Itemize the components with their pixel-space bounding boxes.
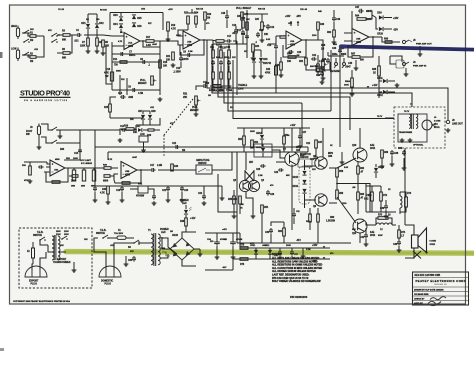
diode CR10 <box>379 27 383 31</box>
wire <box>380 186 382 192</box>
potentiometer R15 bright wiper <box>154 80 157 82</box>
monitor switch box <box>298 159 312 167</box>
wire <box>252 52 254 56</box>
jack J5 contact <box>409 40 412 42</box>
svg-text:MID: MID <box>219 90 223 92</box>
svg-text:68K: 68K <box>216 57 220 59</box>
svg-text:R36 1M: R36 1M <box>258 9 265 11</box>
capacitor C36 <box>278 250 282 256</box>
svg-text:68K: 68K <box>352 229 356 231</box>
zener diode <box>254 250 258 254</box>
wire U3A out <box>65 167 70 169</box>
ground <box>166 37 171 41</box>
supply -15V arrow <box>297 21 299 26</box>
svg-text:MPS: MPS <box>328 153 333 155</box>
diode CR2 <box>95 24 99 28</box>
winding T1 secondary <box>158 234 160 265</box>
wire <box>315 148 317 155</box>
wire -input <box>112 45 118 47</box>
resistor R25 <box>109 104 112 112</box>
title block row lines <box>413 278 469 301</box>
svg-text:47K: 47K <box>170 122 174 125</box>
export transformer core <box>54 235 56 260</box>
svg-text:C33: C33 <box>128 260 133 262</box>
svg-text:4.7K: 4.7K <box>171 28 176 31</box>
wire feedback row 2 <box>112 61 160 63</box>
ground <box>251 56 256 60</box>
wire <box>246 192 253 214</box>
resistor fuse export <box>32 248 35 258</box>
resistor R49 <box>317 22 320 30</box>
svg-text:R74: R74 <box>401 231 406 234</box>
wire <box>109 112 111 118</box>
resistor R16 <box>110 72 113 81</box>
svg-text:A06: A06 <box>296 149 301 152</box>
resistor R44 <box>288 56 296 59</box>
svg-text:5.6K: 5.6K <box>344 167 349 169</box>
resistor R62t <box>333 30 336 37</box>
svg-text:FOOT: FOOT <box>26 131 33 133</box>
ground <box>298 144 303 148</box>
jack 70V line out <box>446 120 449 123</box>
svg-text:4.7K: 4.7K <box>104 72 109 75</box>
wire <box>366 222 376 225</box>
capacitor <box>152 194 156 200</box>
svg-text:R76: R76 <box>240 264 245 266</box>
ground <box>395 83 400 87</box>
resistor R54 <box>261 205 264 213</box>
wire <box>87 29 89 38</box>
svg-text:SWITCH: SWITCH <box>96 233 105 235</box>
capacitor C49 <box>326 58 330 64</box>
wire <box>317 30 319 40</box>
title block appd signature <box>428 301 441 305</box>
switch S2b <box>51 142 53 144</box>
svg-text:470K: 470K <box>265 72 271 75</box>
svg-text:TRANSFORMER: TRANSFORMER <box>399 131 413 134</box>
resistor R8 <box>96 38 99 46</box>
svg-text:R31: R31 <box>183 94 188 96</box>
wire <box>341 152 343 160</box>
wire <box>188 12 196 14</box>
svg-text:T.E.B.: T.E.B. <box>37 232 44 234</box>
op-amp U3A <box>50 160 65 176</box>
wire <box>126 129 137 131</box>
svg-text:4558: 4558 <box>356 41 362 44</box>
wire <box>111 167 118 169</box>
wire <box>255 248 257 250</box>
wire <box>167 192 169 198</box>
ground <box>152 201 157 205</box>
capacitor C29 <box>278 168 284 172</box>
ground <box>171 63 176 67</box>
svg-text:PLUG: PLUG <box>105 283 112 285</box>
diode CR14 <box>261 148 265 152</box>
diode CR6 <box>132 23 136 27</box>
svg-text:CR14: CR14 <box>256 146 262 149</box>
svg-text:POWER: POWER <box>180 200 189 202</box>
capacitor C27 <box>298 134 302 140</box>
svg-text:-15V: -15V <box>393 30 398 32</box>
diode CR5 <box>132 15 136 19</box>
wire <box>218 174 237 212</box>
svg-text:ON/OFF: ON/OFF <box>300 157 309 159</box>
ground <box>58 134 63 138</box>
wire <box>351 70 353 78</box>
wire <box>305 199 317 201</box>
wire join <box>70 35 72 53</box>
svg-text:1M: 1M <box>170 231 173 233</box>
svg-text:PEAVEY ELECTRONICS CORP: PEAVEY ELECTRONICS CORP <box>416 279 466 283</box>
wire <box>172 169 196 171</box>
ground <box>390 162 395 166</box>
svg-text:1M: 1M <box>208 95 211 97</box>
photo bottom-left edge mark <box>0 348 4 351</box>
wire <box>291 256 293 259</box>
jack reverb return <box>343 63 346 66</box>
wire top loop <box>110 12 163 14</box>
capacitor C22b <box>166 186 170 192</box>
ground <box>384 214 389 218</box>
svg-text:.0047: .0047 <box>132 156 138 159</box>
blue highlighter mark over PWR AMP OUT line <box>341 46 474 49</box>
svg-text:68K: 68K <box>62 40 67 42</box>
wire <box>94 147 96 186</box>
wire <box>204 185 222 187</box>
svg-text:2941: 2941 <box>370 147 376 150</box>
relay box around CR14 <box>254 144 272 157</box>
wire <box>212 40 216 41</box>
wire feedback <box>283 40 306 57</box>
blue highlighter start blob <box>341 44 345 49</box>
wire <box>94 245 106 270</box>
wire <box>205 232 240 234</box>
wire <box>279 256 281 259</box>
wire <box>36 35 44 37</box>
wire <box>317 208 319 214</box>
wire <box>216 233 218 241</box>
LED arrows <box>189 207 192 211</box>
wire <box>283 236 285 243</box>
wire cross-couple <box>245 171 254 181</box>
wire <box>254 49 261 51</box>
svg-text:1M: 1M <box>30 61 33 63</box>
capacitor C15b <box>93 186 97 192</box>
junction output node <box>336 183 338 185</box>
svg-text:+15V: +15V <box>168 9 173 11</box>
jack J5 power amp out <box>402 40 405 43</box>
wire <box>213 43 229 45</box>
svg-text:4.7K: 4.7K <box>108 158 113 161</box>
wire +in <box>178 30 188 36</box>
svg-text:PLUG: PLUG <box>31 283 38 285</box>
ground <box>408 138 413 142</box>
ground <box>364 242 369 246</box>
wire bus 5 riser <box>330 50 332 111</box>
diode CR17 <box>302 189 306 193</box>
wire <box>279 248 281 252</box>
resistor R2 <box>30 56 36 59</box>
wire <box>253 63 255 74</box>
svg-text:T.E.B.: T.E.B. <box>100 230 107 232</box>
resistor R19 <box>167 22 170 31</box>
svg-text:2.2M: 2.2M <box>188 51 193 53</box>
wire <box>261 128 263 134</box>
svg-text:R62: R62 <box>360 168 365 170</box>
svg-text:ALL POTS ARE LINEAR UNLESS NOT: ALL POTS ARE LINEAR UNLESS NOTEDALL RESI… <box>272 257 323 283</box>
resistor R50a <box>283 136 286 144</box>
wire <box>269 255 271 260</box>
wire <box>384 28 392 30</box>
wire <box>244 170 246 180</box>
wire center tap <box>160 247 165 249</box>
capacitor C13f <box>78 148 82 154</box>
wire <box>38 137 40 145</box>
diode CR12 <box>383 90 387 94</box>
wire <box>378 92 380 98</box>
capacitor C14 <box>202 84 208 88</box>
wire input1 <box>22 33 30 36</box>
svg-text:3.3K: 3.3K <box>146 45 151 47</box>
wire <box>398 225 400 230</box>
green highlighter mark across power rail <box>66 252 474 254</box>
wire <box>261 213 263 243</box>
svg-text:220PF: 220PF <box>182 59 189 61</box>
wire U3B out <box>137 169 150 171</box>
capacitor C17t <box>241 30 245 36</box>
diode CR7f <box>138 128 142 132</box>
wire <box>212 66 214 72</box>
wire +41V rail <box>237 127 310 129</box>
svg-text:+15V: +15V <box>285 16 291 18</box>
capacitor C15s <box>179 56 183 62</box>
svg-text:SJE: SJE <box>370 145 375 147</box>
wire <box>329 202 337 204</box>
wire <box>143 129 148 131</box>
wire <box>143 142 145 148</box>
wire <box>149 120 151 125</box>
svg-text:2000: 2000 <box>81 186 85 188</box>
wire <box>243 145 245 152</box>
capacitor <box>219 60 223 66</box>
wire <box>388 218 392 225</box>
svg-text:C40: C40 <box>393 243 398 246</box>
winding export primary <box>52 236 54 260</box>
wire cross-couple <box>245 171 254 181</box>
wire bus 5 <box>228 56 331 111</box>
svg-text:100K: 100K <box>176 35 181 37</box>
wire <box>357 174 359 184</box>
wire speaker return <box>405 248 414 258</box>
ground <box>93 198 98 202</box>
capacitor C10 <box>234 28 238 34</box>
wire bus 2 <box>212 44 412 107</box>
resistor R53 <box>239 196 242 204</box>
resistor R66 <box>385 41 392 44</box>
wire <box>70 34 76 36</box>
wire <box>126 237 134 239</box>
wire pull-bright dashed link <box>164 99 193 135</box>
green highlighter dark core <box>66 252 474 254</box>
svg-text:.1M: .1M <box>352 187 356 189</box>
resistor R72 <box>380 192 383 201</box>
wire <box>380 201 382 212</box>
svg-text:HIGH: HIGH <box>11 26 17 28</box>
svg-text:100V: 100V <box>64 234 69 236</box>
wire <box>260 63 262 74</box>
wire <box>57 34 63 36</box>
capacitor C21 <box>174 145 180 149</box>
svg-text:-41V: -41V <box>222 266 227 269</box>
wire <box>107 194 109 200</box>
wire <box>79 143 81 160</box>
wire <box>69 175 72 177</box>
ground <box>252 74 257 78</box>
ground <box>380 164 385 168</box>
wire <box>447 116 449 120</box>
resistor R76 <box>240 258 248 261</box>
potentiometer MASTER <box>322 60 325 69</box>
wire <box>180 62 182 68</box>
svg-text:330P: 330P <box>378 235 383 237</box>
resistor R29 <box>228 50 231 58</box>
resistor R57a <box>309 214 312 222</box>
wire -rail <box>233 258 330 260</box>
wire <box>120 29 122 33</box>
wire <box>94 192 96 198</box>
switch S2a <box>51 129 53 131</box>
svg-text:4.7K: 4.7K <box>118 40 123 43</box>
svg-text:R63a: R63a <box>332 54 338 56</box>
ground <box>260 38 265 42</box>
svg-text:1M: 1M <box>30 40 33 42</box>
capacitor C23 <box>314 155 318 161</box>
svg-text:POWER: POWER <box>160 229 169 231</box>
wire <box>47 162 50 164</box>
wire <box>333 37 335 40</box>
wire <box>246 10 248 58</box>
wire output node <box>337 183 358 185</box>
potentiometer MASTER wiper <box>325 64 328 66</box>
wire into power amp <box>232 151 237 153</box>
svg-text:CR10: CR10 <box>377 34 384 36</box>
ground <box>418 52 423 56</box>
wire <box>333 10 335 16</box>
capacitor C39a <box>402 150 406 156</box>
svg-text:SN & HARRISON 12/7/83: SN & HARRISON 12/7/83 <box>24 99 68 102</box>
optional output transformer dashed box <box>394 107 445 148</box>
jack J6 switch contact <box>396 60 404 68</box>
resistor R39 <box>122 182 130 185</box>
resistor R67 <box>352 56 360 59</box>
wire <box>239 204 241 214</box>
ground <box>219 84 224 88</box>
ground <box>215 255 220 259</box>
resistor R46a <box>317 64 320 72</box>
junction <box>140 169 142 171</box>
resistor R71 <box>371 192 374 201</box>
wire <box>58 251 66 253</box>
wire speaker feed <box>405 225 414 235</box>
svg-text:R73: R73 <box>378 215 383 217</box>
resistor R51r <box>305 58 308 65</box>
title block frame <box>413 272 469 305</box>
svg-text:12K: 12K <box>368 195 372 197</box>
svg-text:R19: R19 <box>171 25 176 27</box>
wire <box>335 58 337 62</box>
wire <box>379 81 382 92</box>
wire <box>375 173 377 178</box>
svg-text:10K: 10K <box>287 61 292 63</box>
svg-text:4558: 4558 <box>125 174 131 177</box>
wire +rail to regulators <box>240 247 330 249</box>
speaker 8 ohm <box>412 235 419 248</box>
wire <box>302 248 304 254</box>
wire <box>167 31 169 37</box>
ground <box>400 138 405 142</box>
svg-text:25K: 25K <box>183 97 188 99</box>
winding T2 secondary <box>416 114 418 128</box>
wire + rail <box>182 232 196 238</box>
bias diode chain box <box>299 166 310 204</box>
wire <box>64 159 80 161</box>
wire <box>110 117 143 119</box>
jack J3 footswitch <box>37 126 40 135</box>
wire <box>365 228 367 235</box>
potentiometer presence <box>261 22 264 30</box>
optional box inner wire loop <box>398 114 427 142</box>
svg-text:C41: C41 <box>360 236 365 239</box>
wire effects return bus <box>108 151 308 153</box>
wire <box>216 246 218 255</box>
op-amp U1B <box>183 31 200 49</box>
capacitor C30 <box>269 228 273 234</box>
capacitor C19 <box>274 44 278 50</box>
wire <box>247 13 268 15</box>
wire <box>24 161 47 163</box>
wire <box>142 120 144 125</box>
wire preamp-to-poweramp bus <box>207 40 448 116</box>
wire <box>270 234 272 243</box>
resistor R32 <box>241 12 244 20</box>
wire <box>36 36 44 57</box>
ground <box>124 262 129 266</box>
svg-text:NOTES:: NOTES: <box>272 252 282 256</box>
supply arrow +15 <box>323 247 325 249</box>
wire <box>348 45 352 57</box>
wire <box>138 241 140 245</box>
wire <box>229 34 236 44</box>
capacitor C16b <box>120 186 124 192</box>
resistor R30t <box>212 85 221 88</box>
wire <box>322 69 324 76</box>
wire <box>366 185 381 187</box>
wire <box>204 39 207 41</box>
svg-text:10K: 10K <box>163 66 168 68</box>
wire <box>243 128 245 136</box>
ground <box>72 268 77 272</box>
capacitor C7 <box>119 52 125 56</box>
diode CR3 <box>119 17 123 21</box>
resistor R73v <box>405 197 408 207</box>
svg-text:U1B: U1B <box>187 42 192 44</box>
svg-text:6800: 6800 <box>91 186 95 188</box>
ground <box>158 97 163 101</box>
wire <box>385 210 387 214</box>
wire <box>87 14 89 23</box>
wire <box>139 242 151 244</box>
resistor R63 <box>357 192 360 200</box>
